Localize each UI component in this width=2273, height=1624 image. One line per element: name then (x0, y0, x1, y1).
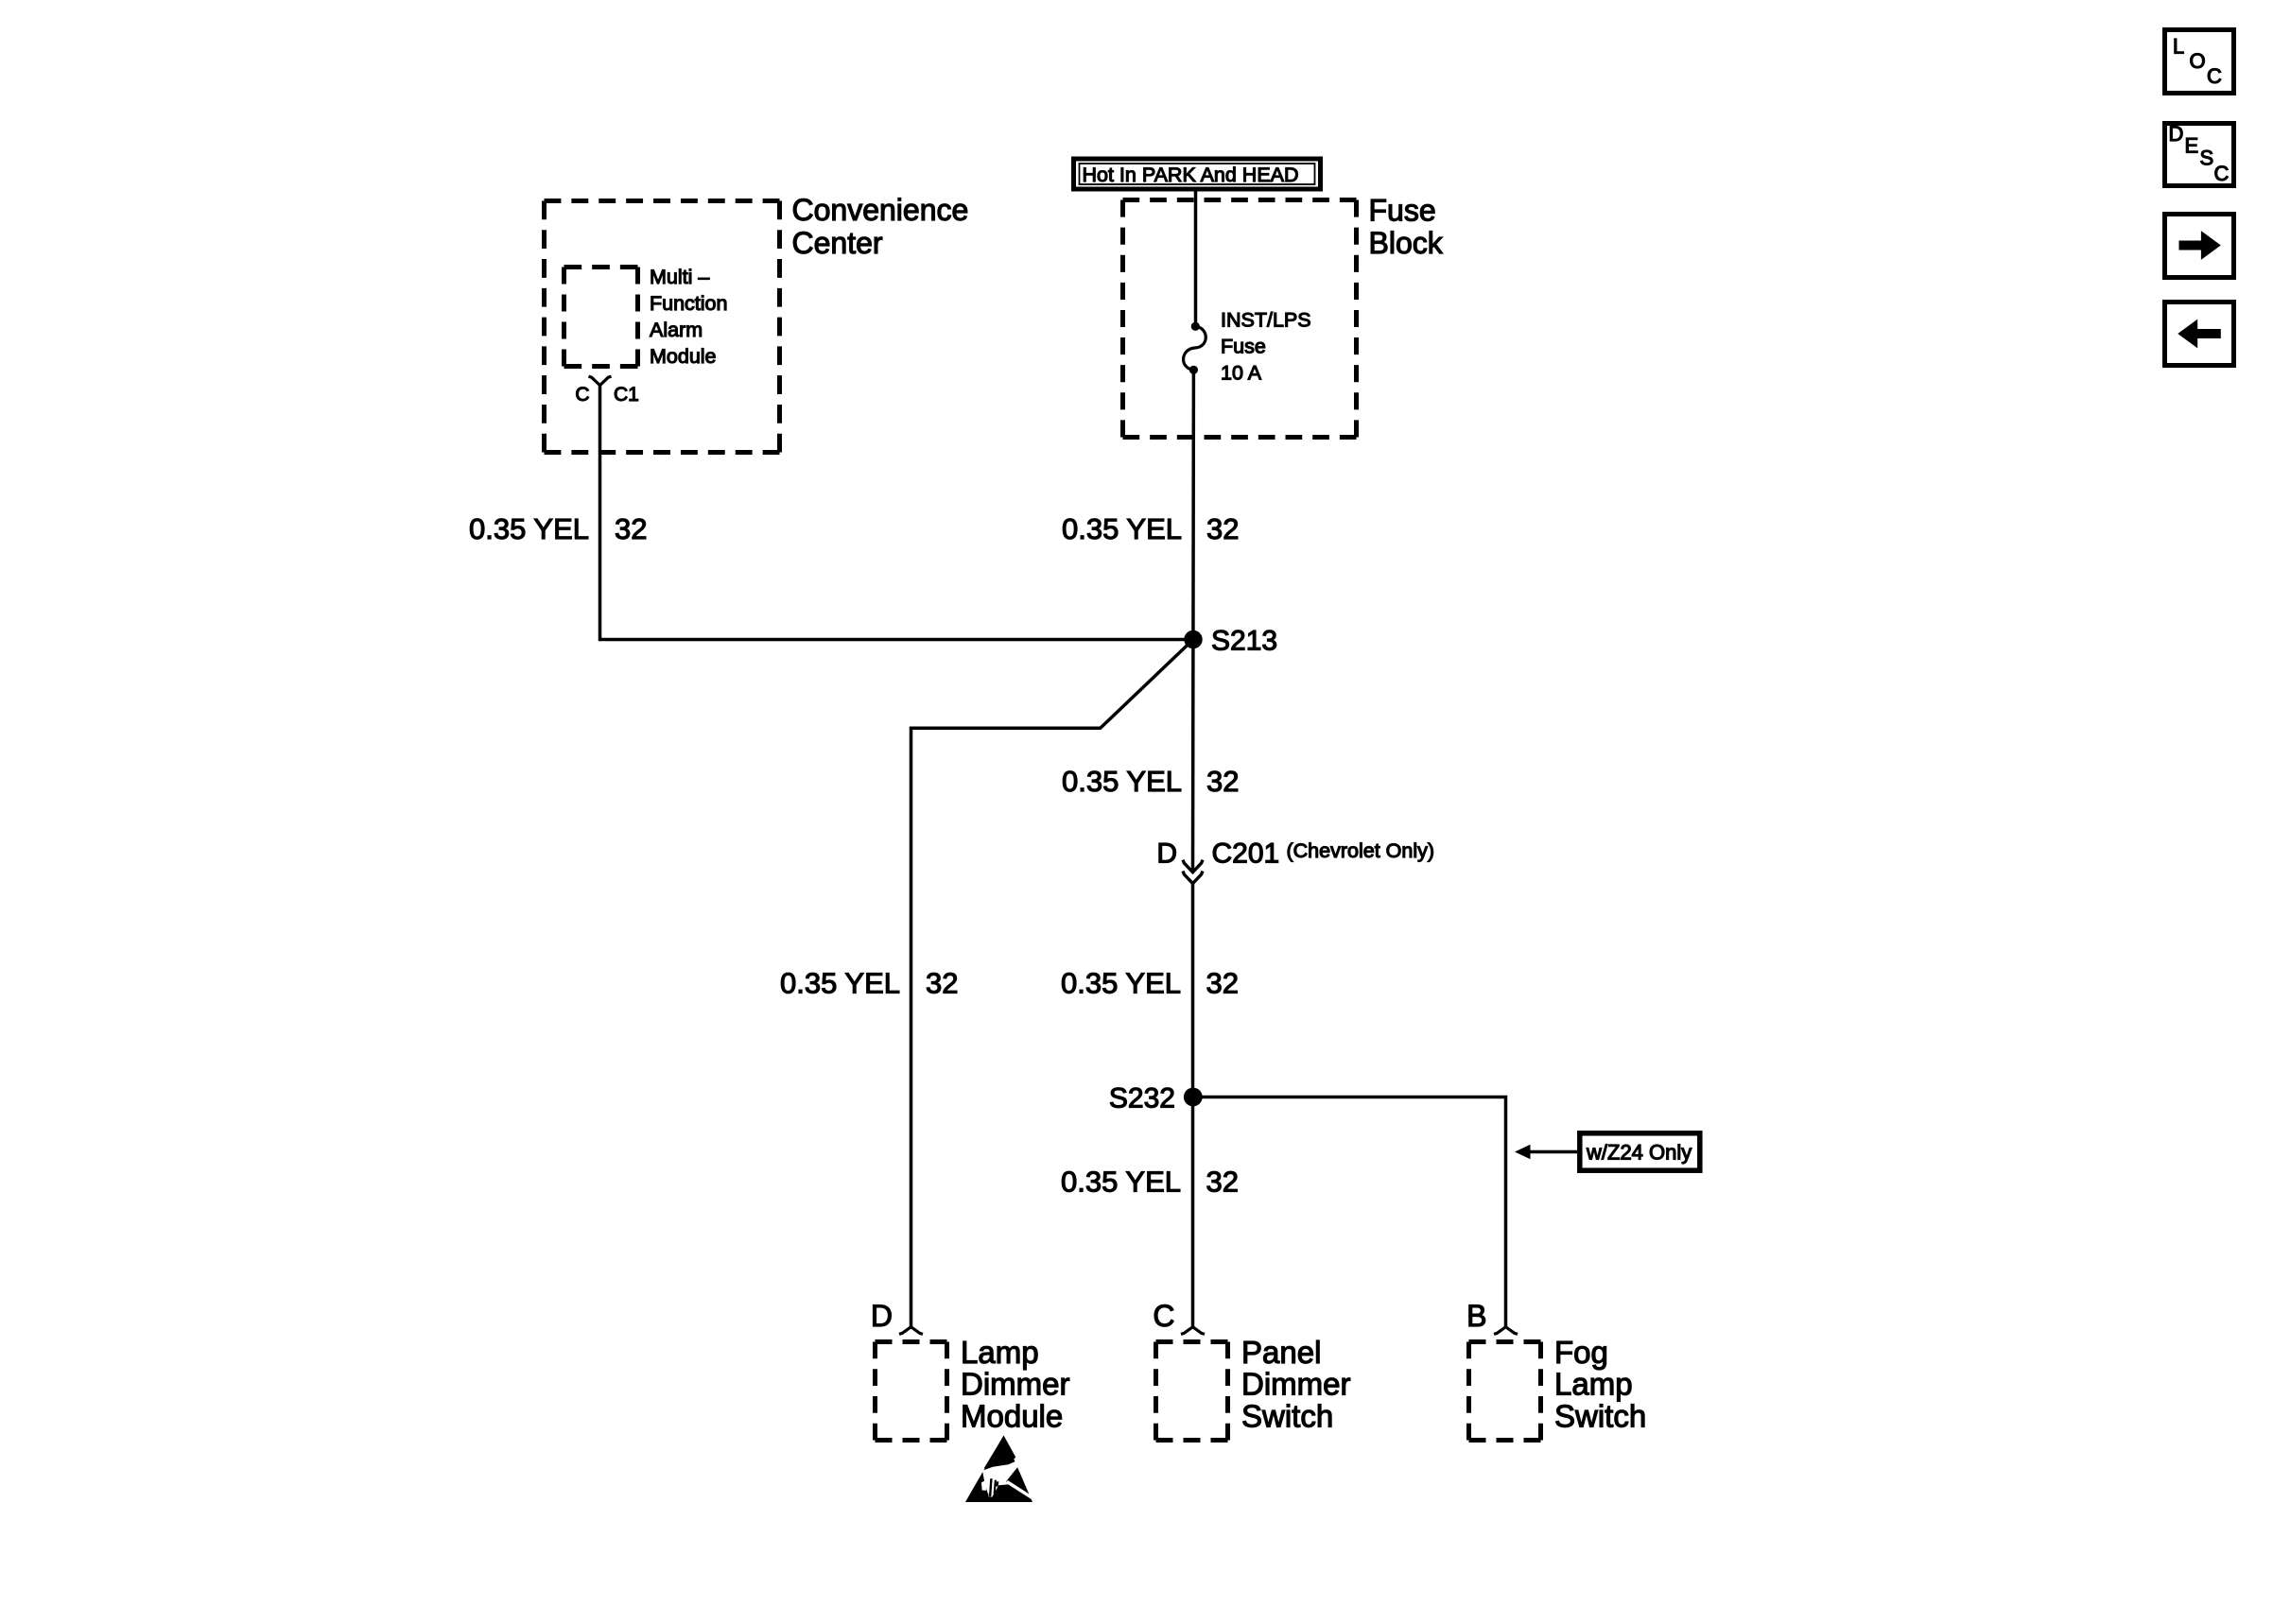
svg-text:C: C (2207, 64, 2222, 88)
svg-text:S: S (2200, 147, 2214, 170)
svg-text:(Chevrolet Only): (Chevrolet Only) (1287, 839, 1435, 862)
svg-text:C: C (575, 384, 589, 406)
svg-text:w/Z24 Only: w/Z24 Only (1586, 1141, 1692, 1165)
svg-text:0.35 YEL: 0.35 YEL (1062, 765, 1182, 798)
svg-text:Function: Function (650, 292, 727, 315)
svg-text:S232: S232 (1109, 1083, 1175, 1114)
svg-text:0.35 YEL: 0.35 YEL (469, 512, 589, 545)
svg-text:32: 32 (1206, 512, 1239, 545)
svg-text:S213: S213 (1211, 626, 1277, 657)
svg-text:0.35 YEL: 0.35 YEL (1061, 967, 1181, 1000)
svg-text:O: O (2190, 49, 2206, 73)
svg-text:C: C (2214, 162, 2230, 185)
svg-text:C: C (1153, 1299, 1174, 1333)
svg-text:Panel: Panel (1241, 1335, 1321, 1370)
svg-text:D: D (1156, 838, 1177, 870)
svg-text:Fog: Fog (1554, 1335, 1608, 1370)
svg-text:L: L (2173, 35, 2184, 59)
svg-text:32: 32 (1206, 967, 1239, 1000)
svg-text:D: D (2169, 122, 2184, 146)
svg-text:32: 32 (926, 967, 958, 1000)
svg-text:32: 32 (1206, 765, 1239, 798)
svg-text:32: 32 (615, 512, 647, 545)
svg-text:Multi –: Multi – (650, 266, 709, 288)
svg-text:Lamp: Lamp (961, 1335, 1039, 1370)
svg-text:0.35 YEL: 0.35 YEL (780, 967, 900, 1000)
svg-text:32: 32 (1206, 1166, 1239, 1199)
svg-text:Module: Module (650, 345, 717, 368)
svg-text:Center: Center (792, 226, 883, 260)
svg-text:Module: Module (961, 1398, 1063, 1433)
svg-text:C201: C201 (1212, 838, 1280, 870)
svg-text:Fuse: Fuse (1221, 336, 1266, 358)
svg-text:10 A: 10 A (1221, 362, 1262, 385)
svg-text:Hot In PARK And HEAD: Hot In PARK And HEAD (1083, 164, 1299, 186)
svg-text:Dimmer: Dimmer (1241, 1367, 1350, 1402)
svg-text:Alarm: Alarm (650, 319, 703, 341)
svg-text:Convenience: Convenience (792, 193, 969, 227)
svg-text:INST/LPS: INST/LPS (1221, 309, 1311, 332)
svg-text:0.35 YEL: 0.35 YEL (1061, 1166, 1181, 1199)
svg-text:Switch: Switch (1241, 1398, 1333, 1433)
svg-text:E: E (2185, 134, 2199, 158)
svg-text:Switch: Switch (1554, 1398, 1646, 1433)
svg-text:Fuse: Fuse (1369, 194, 1436, 228)
svg-text:Dimmer: Dimmer (961, 1367, 1069, 1402)
svg-text:B: B (1466, 1299, 1486, 1333)
svg-text:Lamp: Lamp (1554, 1367, 1633, 1402)
svg-text:C1: C1 (614, 384, 639, 406)
svg-text:D: D (871, 1299, 893, 1333)
svg-text:0.35 YEL: 0.35 YEL (1062, 512, 1182, 545)
svg-text:Block: Block (1369, 226, 1444, 260)
